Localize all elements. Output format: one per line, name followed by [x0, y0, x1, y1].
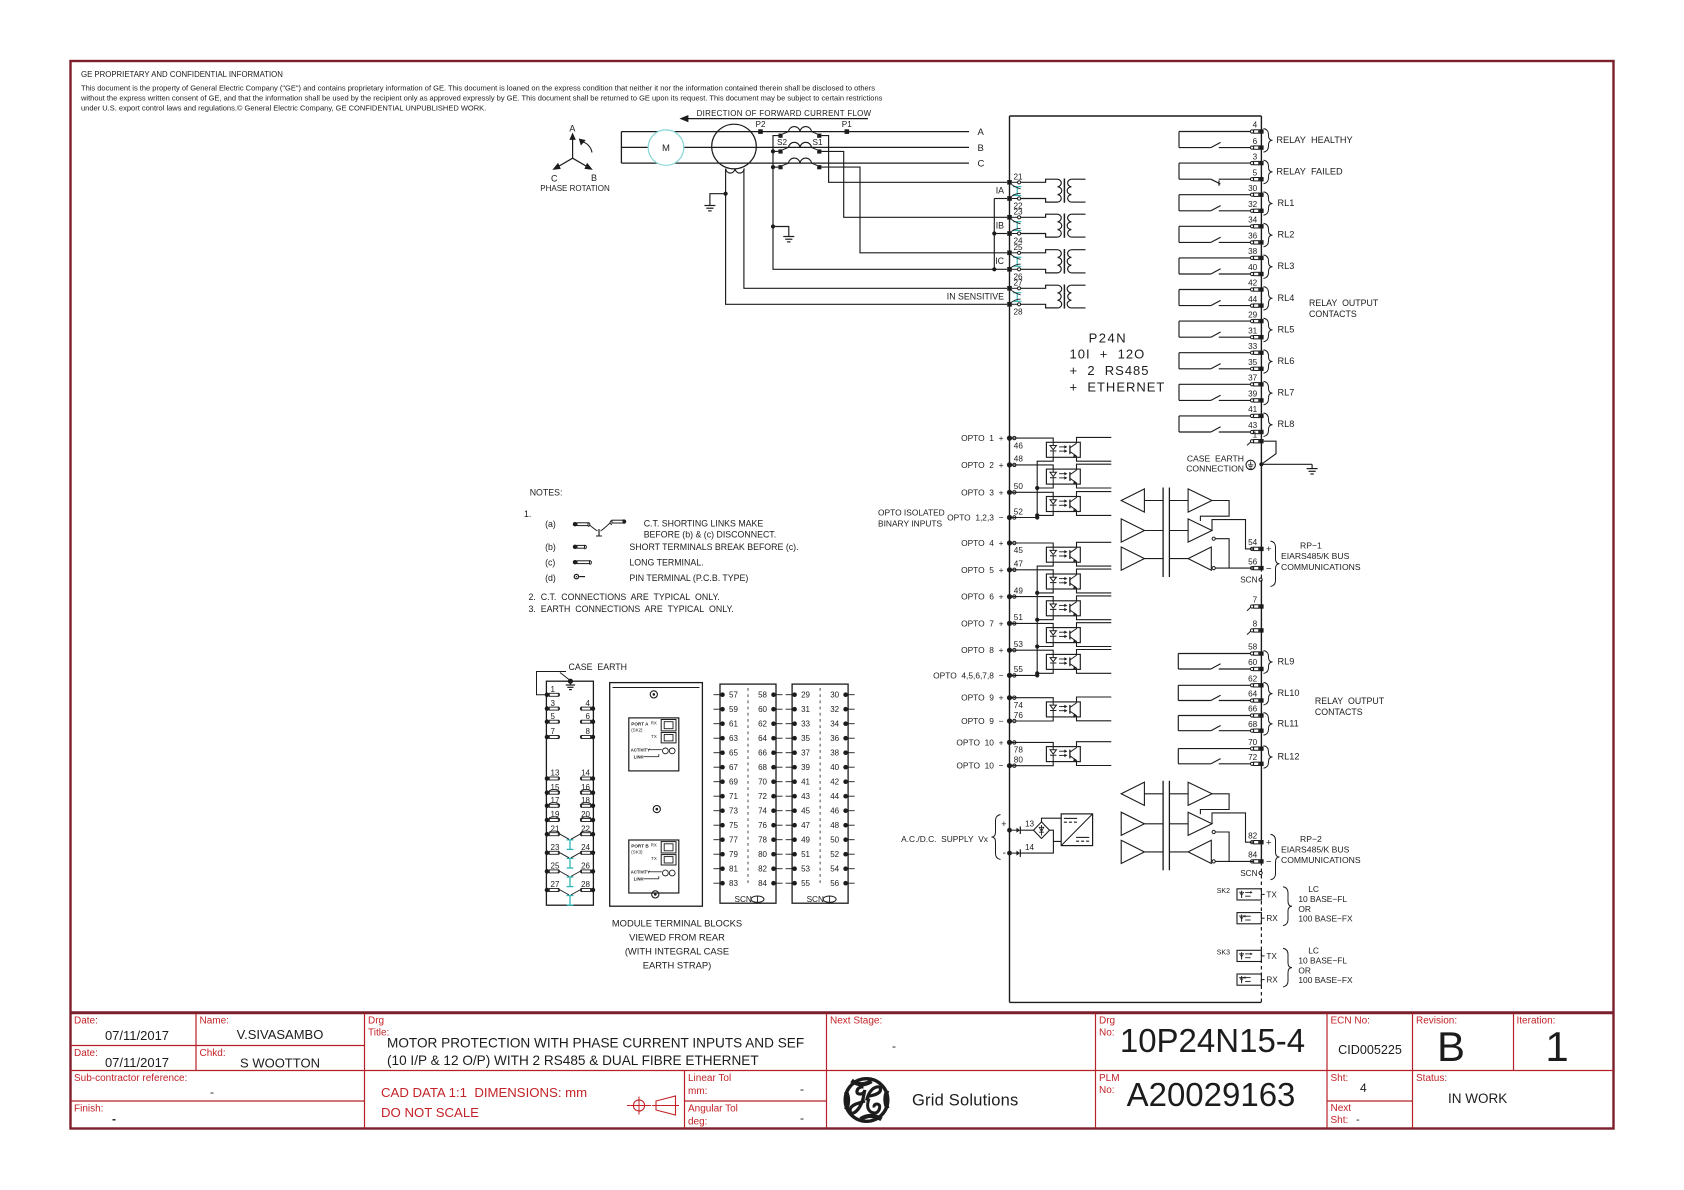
svg-text:RELAY OUTPUT: RELAY OUTPUT — [1309, 298, 1379, 308]
svg-text:IN WORK: IN WORK — [1448, 1091, 1507, 1106]
svg-text:7: 7 — [1253, 596, 1258, 605]
svg-text:70: 70 — [758, 778, 767, 787]
svg-text:41: 41 — [1248, 405, 1258, 414]
svg-text:35: 35 — [801, 734, 810, 743]
fibre port SK2 RX — [1237, 913, 1278, 924]
svg-text:43: 43 — [1248, 421, 1258, 430]
rear block terminal 71 — [714, 792, 739, 801]
rear block A SCN — [735, 895, 765, 904]
svg-text:CASE EARTH: CASE EARTH — [569, 662, 628, 672]
CT shorting link 21/22 — [1013, 186, 1021, 188]
svg-text:ACTIVITY: ACTIVITY — [631, 747, 650, 752]
relay contact RELAY&#160; FAILED terminals 3/5 — [1179, 152, 1343, 186]
wire opto 5 cathode to common — [1037, 589, 1053, 593]
svg-text:B: B — [1437, 1023, 1465, 1070]
svg-text:CONNECTION: CONNECTION — [1186, 464, 1244, 474]
svg-text:53: 53 — [801, 865, 810, 874]
rear block terminal 64 — [758, 734, 782, 743]
rear block B SCN — [807, 895, 837, 904]
wire opto 7 cathode to common — [1037, 643, 1053, 647]
svg-text:73: 73 — [729, 807, 738, 816]
svg-text:37: 37 — [1248, 374, 1258, 383]
rear block terminal 68 — [758, 763, 782, 772]
svg-text:46: 46 — [830, 807, 839, 816]
title block CAD note — [381, 1085, 587, 1120]
receiver input circle A — [1212, 830, 1215, 833]
rear block terminal 16 — [580, 783, 595, 795]
rear block terminal 24 — [580, 843, 595, 855]
wire receiver input A — [1215, 539, 1229, 568]
terminal 24 — [1007, 231, 1012, 236]
svg-text:59: 59 — [729, 705, 738, 714]
rear block terminal 76 — [758, 821, 782, 830]
svg-text:31: 31 — [801, 705, 810, 714]
svg-text:55: 55 — [1014, 665, 1024, 674]
rear block terminal 47 — [786, 821, 811, 830]
svg-text:13: 13 — [1025, 820, 1035, 829]
svg-text:A: A — [978, 127, 985, 138]
svg-text:RL4: RL4 — [1278, 293, 1295, 303]
svg-text:MODULE TERMINAL BLOCKS: MODULE TERMINAL BLOCKS — [612, 918, 742, 929]
svg-text:1: 1 — [1253, 430, 1258, 439]
svg-text:NOTES:: NOTES: — [530, 488, 563, 498]
svg-text:-: - — [112, 1112, 116, 1126]
svg-text:+: + — [1001, 819, 1006, 829]
terminal 46 opto 1 + — [1007, 436, 1012, 441]
rear block terminal 72 — [758, 792, 782, 801]
terminal 84 — [1250, 860, 1253, 863]
brace RP-2 — [1271, 834, 1280, 880]
svg-text:67: 67 — [729, 763, 738, 772]
terminal 8 — [1250, 629, 1253, 632]
svg-text:1.: 1. — [524, 509, 531, 519]
label P24N model block — [1070, 331, 1166, 395]
isolation buffer triangle (right col, row2, driver) — [1188, 812, 1212, 835]
CT shorting link 25/26 — [1013, 256, 1021, 258]
svg-text:RL5: RL5 — [1278, 324, 1295, 334]
svg-text:OPTO 10 −: OPTO 10 − — [956, 761, 1003, 771]
isolation buffer triangle (left col, row1, receiver) — [1121, 782, 1144, 805]
svg-text:07/11/2017: 07/11/2017 — [105, 1028, 169, 1043]
svg-text:(WITH INTEGRAL CASE: (WITH INTEGRAL CASE — [625, 946, 729, 957]
svg-text:PHASE ROTATION: PHASE ROTATION — [540, 184, 610, 193]
terminal 54 — [1250, 547, 1253, 550]
wire phase C CT S1 to terminal 25 — [821, 167, 1007, 253]
svg-text:-: - — [800, 1082, 804, 1096]
svg-text:42: 42 — [1248, 279, 1258, 288]
svg-text:07/11/2017: 07/11/2017 — [105, 1055, 169, 1070]
svg-text:Finish:: Finish: — [74, 1104, 103, 1115]
svg-text:OPTO 9 +: OPTO 9 + — [961, 693, 1004, 703]
relay input CT IB transformer — [1021, 214, 1086, 238]
wire phase A CT S1 to terminal 21 — [821, 136, 1007, 183]
svg-text:53: 53 — [1014, 640, 1024, 649]
svg-text:OR: OR — [1298, 965, 1311, 975]
rear block terminal 59 — [714, 705, 739, 714]
wire driver1 output — [1200, 794, 1229, 815]
svg-text:66: 66 — [1248, 705, 1258, 714]
svg-text:PORT A: PORT A — [631, 721, 649, 726]
svg-text:32: 32 — [830, 705, 839, 714]
relay contact RL3 terminals 38/40 — [1179, 247, 1294, 278]
svg-text:SCN: SCN — [735, 895, 752, 904]
svg-text:RL3: RL3 — [1278, 261, 1295, 271]
svg-text:23: 23 — [551, 843, 560, 852]
svg-text:+ 2 RS485: + 2 RS485 — [1070, 363, 1150, 378]
rear block terminal 25 — [545, 862, 560, 874]
svg-text:Chkd:: Chkd: — [200, 1048, 226, 1059]
svg-text:82: 82 — [758, 865, 767, 874]
svg-text:28: 28 — [581, 880, 590, 889]
wires across isolation core — [1144, 793, 1163, 795]
svg-text:27: 27 — [1014, 278, 1024, 287]
svg-text:24: 24 — [581, 843, 590, 852]
svg-text:32: 32 — [1248, 200, 1258, 209]
svg-text:28: 28 — [1014, 307, 1024, 316]
svg-text:without the express written co: without the express written consent of G… — [80, 94, 883, 103]
terminal 1 case earth — [1247, 430, 1264, 445]
svg-text:Drg: Drg — [368, 1016, 384, 1027]
svg-text:A: A — [569, 124, 575, 134]
rear block terminal 45 — [786, 807, 811, 816]
svg-text:72: 72 — [1248, 753, 1258, 762]
title block row 1 labels and values — [74, 1016, 323, 1071]
terminal 47 opto 5 + — [1007, 567, 1012, 572]
svg-text:1: 1 — [551, 685, 556, 694]
svg-text:30: 30 — [1248, 184, 1258, 193]
wire rectifier right to PSU — [1050, 830, 1062, 841]
rear block terminal 70 — [758, 778, 782, 787]
svg-text:4: 4 — [1360, 1081, 1367, 1095]
wire terminal 1 to case earth stud — [1261, 441, 1276, 464]
svg-text:10 BASE−FL: 10 BASE−FL — [1298, 956, 1347, 966]
relay contact RL4 terminals 42/44 — [1179, 279, 1294, 310]
svg-text:49: 49 — [801, 836, 810, 845]
svg-text:5: 5 — [551, 712, 556, 721]
svg-text:OPTO 3 +: OPTO 3 + — [961, 487, 1004, 497]
svg-text:68: 68 — [758, 763, 767, 772]
fibre port SK3 RX — [1237, 974, 1278, 985]
relay contact RL6 terminals 33/35 — [1179, 342, 1294, 373]
wire terminal 55 to opto common bus — [1012, 674, 1037, 676]
rear terminal block B outline — [792, 684, 848, 903]
svg-text:54: 54 — [830, 865, 839, 874]
svg-text:LC: LC — [1308, 884, 1319, 894]
svg-text:31: 31 — [1248, 326, 1258, 335]
svg-text:62: 62 — [758, 720, 767, 729]
title block status — [1416, 1073, 1507, 1106]
rear block terminal 43 — [786, 792, 811, 801]
wire terminal 52 to opto common bus — [1012, 517, 1037, 519]
module screw bottom — [652, 891, 659, 898]
svg-text:OPTO 1,2,3 −: OPTO 1,2,3 − — [947, 513, 1004, 523]
svg-text:40: 40 — [830, 763, 839, 772]
svg-text:58: 58 — [758, 691, 767, 700]
rear block terminal 73 — [714, 807, 739, 816]
svg-text:8: 8 — [586, 727, 591, 736]
terminal 50 opto 3 + — [1007, 490, 1012, 495]
svg-text:79: 79 — [729, 850, 738, 859]
svg-text:(SK3): (SK3) — [631, 850, 643, 855]
svg-text:OPTO 7 +: OPTO 7 + — [961, 618, 1004, 628]
svg-text:Drg: Drg — [1099, 1016, 1115, 1027]
svg-text:4: 4 — [586, 699, 591, 708]
receiver input circle B — [1212, 860, 1215, 863]
svg-text:Sub-contractor reference:: Sub-contractor reference: — [74, 1073, 187, 1084]
svg-text:OPTO 10 +: OPTO 10 + — [956, 737, 1003, 747]
rear block terminal 39 — [786, 763, 811, 772]
terminal 14 supply - — [1007, 843, 1034, 857]
svg-text:IN SENSITIVE: IN SENSITIVE — [947, 291, 1004, 301]
CT shorting link 27/28 — [1013, 292, 1021, 294]
terminal 80 opto 10 - — [1007, 763, 1012, 768]
svg-text:CONTACTS: CONTACTS — [1309, 309, 1357, 319]
terminal 53 opto 8 + — [1007, 648, 1012, 653]
line CT phase B — [778, 142, 821, 153]
optocoupler U3 — [1012, 492, 1111, 516]
svg-text:B: B — [978, 143, 984, 154]
svg-text:52: 52 — [830, 850, 839, 859]
svg-text:65: 65 — [729, 749, 738, 758]
rear block terminal 8 — [580, 727, 595, 739]
GE logo — [845, 1079, 888, 1122]
svg-text:OR: OR — [1298, 904, 1311, 914]
svg-text:TX: TX — [1266, 890, 1277, 899]
svg-text:OPTO 4 +: OPTO 4 + — [961, 538, 1004, 548]
rear block terminal 42 — [830, 778, 854, 787]
case earth stud on block — [566, 679, 575, 690]
title block next stage — [830, 1016, 896, 1054]
ground at CT secondary star point — [773, 227, 794, 242]
svg-text:52: 52 — [1014, 507, 1024, 516]
title block revision — [1416, 1016, 1465, 1071]
svg-text:3. EARTH CONNECTIONS ARE T: 3. EARTH CONNECTIONS ARE TYPICAL ONLY. — [529, 604, 734, 614]
wire opto 9 cathode to terminal 76 — [1012, 717, 1053, 721]
rear block terminal 3 — [545, 699, 560, 711]
wire opto 4 cathode to common — [1037, 562, 1053, 675]
svg-text:RL6: RL6 — [1278, 356, 1295, 366]
svg-text:74: 74 — [1014, 701, 1024, 710]
terminal 26 — [1007, 267, 1012, 272]
rear block terminal 7 — [545, 727, 560, 739]
svg-text:+ ETHERNET: + ETHERNET — [1070, 380, 1166, 395]
svg-text:RX: RX — [1266, 914, 1278, 923]
rear block terminal 78 — [758, 836, 782, 845]
svg-text:14: 14 — [581, 769, 590, 778]
relay contact RL2 terminals 34/36 — [1179, 216, 1294, 247]
svg-text:Next Stage:: Next Stage: — [830, 1016, 882, 1027]
rear block terminal 48 — [830, 821, 854, 830]
terminal P2 of phase A CT — [758, 129, 763, 134]
svg-text:RL2: RL2 — [1278, 230, 1295, 240]
ground at case earth — [1261, 464, 1317, 474]
svg-text:P1: P1 — [842, 120, 852, 129]
svg-text:-: - — [892, 1039, 896, 1053]
svg-text:A.C./D.C. SUPPLY Vx: A.C./D.C. SUPPLY Vx — [901, 834, 989, 844]
wire core balance CT secondary left lead to terminal 28 — [726, 169, 1007, 305]
svg-text:3: 3 — [551, 699, 556, 708]
isolation buffer triangle (right col, row1, driver) — [1188, 782, 1212, 805]
svg-text:+: + — [1266, 838, 1272, 849]
brace SK3 — [1283, 948, 1292, 987]
svg-text:RL12: RL12 — [1278, 751, 1300, 761]
svg-text:+: + — [1266, 544, 1272, 555]
svg-text:RL10: RL10 — [1278, 688, 1300, 698]
fibre port SK3 TX — [1217, 949, 1278, 961]
terminal 78 opto 10 + — [1007, 740, 1012, 745]
optocoupler U51 — [1012, 623, 1111, 647]
rear block terminal 31 — [786, 705, 811, 714]
svg-text:IA: IA — [996, 185, 1004, 195]
svg-text:LONG TERMINAL.: LONG TERMINAL. — [629, 557, 703, 567]
svg-text:(a): (a) — [545, 519, 556, 529]
svg-text:54: 54 — [1248, 538, 1258, 547]
svg-text:RL11: RL11 — [1278, 718, 1299, 728]
rear block terminal 60 — [758, 705, 782, 714]
wire motor star tie — [620, 132, 622, 164]
terminal 49 opto 6 + — [1007, 594, 1012, 599]
svg-text:27: 27 — [551, 880, 560, 889]
svg-text:SCN: SCN — [1240, 869, 1257, 878]
svg-text:A20029163: A20029163 — [1127, 1076, 1296, 1113]
wire opto 2 cathode to common — [1037, 484, 1053, 488]
svg-text:VIEWED FROM REAR: VIEWED FROM REAR — [629, 932, 725, 943]
module PORT A (SK2) — [629, 718, 679, 771]
svg-text:46: 46 — [1014, 441, 1024, 450]
optocoupler U1 — [1012, 437, 1111, 461]
svg-text:OPTO 5 +: OPTO 5 + — [961, 565, 1004, 575]
svg-text:RL1: RL1 — [1278, 198, 1295, 208]
svg-text:45: 45 — [801, 807, 810, 816]
svg-text:39: 39 — [801, 763, 810, 772]
svg-text:under U.S. export control laws: under U.S. export control laws and regul… — [81, 104, 486, 113]
svg-text:83: 83 — [729, 879, 738, 888]
receiver input circle A — [1212, 537, 1215, 540]
svg-text:OPTO 1 +: OPTO 1 + — [961, 433, 1004, 443]
rear centre module outline — [610, 683, 703, 907]
wire driver2 output to + terminal — [1212, 813, 1257, 842]
svg-text:47: 47 — [1014, 560, 1024, 569]
terminal 22 — [1007, 196, 1012, 201]
svg-text:62: 62 — [1248, 675, 1258, 684]
svg-text:(d): (d) — [545, 573, 556, 583]
svg-text:OPTO 9 −: OPTO 9 − — [961, 716, 1004, 726]
svg-text:M: M — [662, 143, 670, 154]
svg-text:Status:: Status: — [1416, 1073, 1447, 1084]
svg-text:51: 51 — [801, 850, 810, 859]
svg-text:C: C — [551, 174, 558, 184]
isolation buffer triangle (right col, row3, receiver) — [1188, 547, 1211, 570]
svg-text:76: 76 — [758, 821, 767, 830]
svg-text:30: 30 — [830, 691, 839, 700]
svg-text:68: 68 — [1248, 720, 1258, 729]
terminal 13 supply + — [1007, 820, 1034, 835]
svg-text:84: 84 — [1248, 851, 1258, 860]
svg-text:LINK: LINK — [634, 877, 644, 882]
terminal 51 opto 7 + — [1007, 621, 1012, 626]
svg-text:36: 36 — [1248, 232, 1258, 241]
rear block terminal 30 — [830, 691, 854, 700]
module screw middle — [653, 806, 660, 813]
relay P24N case outline — [1010, 116, 1262, 1002]
svg-text:RL7: RL7 — [1278, 388, 1295, 398]
svg-text:Name:: Name: — [200, 1016, 229, 1027]
note (c) symbol and text — [545, 557, 703, 567]
svg-text:71: 71 — [729, 792, 738, 801]
svg-text:BINARY INPUTS: BINARY INPUTS — [878, 519, 942, 529]
rear block terminal 49 — [786, 836, 811, 845]
wire opto 6 cathode to common — [1037, 616, 1053, 620]
svg-text:SK2: SK2 — [1217, 888, 1230, 895]
svg-text:50: 50 — [830, 836, 839, 845]
svg-text:48: 48 — [1014, 455, 1024, 464]
svg-text:COMMUNICATIONS: COMMUNICATIONS — [1281, 855, 1361, 865]
wire CT return bus terminals 22 and 24 — [994, 198, 1007, 200]
rear block terminal 32 — [830, 705, 854, 714]
svg-text:(b): (b) — [545, 542, 556, 552]
note (d) symbol and text — [545, 573, 748, 583]
svg-text:42: 42 — [830, 778, 839, 787]
svg-text:36: 36 — [830, 734, 839, 743]
rear block terminal 15 — [545, 783, 560, 795]
svg-text:100 BASE−FX: 100 BASE−FX — [1298, 975, 1353, 985]
rear block terminal 77 — [714, 836, 739, 845]
brace SK2 — [1283, 887, 1292, 926]
svg-text:41: 41 — [801, 778, 810, 787]
terminal 56 — [1250, 567, 1253, 570]
module screw top — [650, 691, 657, 698]
rear left terminal block outline — [546, 681, 593, 905]
svg-text:10P24N15-4: 10P24N15-4 — [1120, 1022, 1305, 1059]
terminal 45 opto 4 + — [1007, 540, 1012, 545]
optocoupler U2 — [1012, 464, 1111, 488]
title block ECN no — [1331, 1016, 1402, 1058]
isolation buffer triangle (left col, row2) — [1121, 519, 1144, 542]
terminal 48 opto 2 + — [1007, 462, 1012, 467]
relay contact RL12 terminals 70/72 — [1178, 738, 1299, 769]
rear block terminal 21 — [545, 824, 560, 836]
svg-text:40: 40 — [1248, 263, 1258, 272]
wire phase bus C — [621, 162, 969, 164]
terminal 21 — [1007, 180, 1012, 185]
svg-text:No:: No: — [1099, 1085, 1115, 1096]
receiver input circle B — [1212, 567, 1215, 570]
optocoupler U49 — [1012, 596, 1111, 620]
svg-text:10 BASE−FL: 10 BASE−FL — [1298, 894, 1347, 904]
svg-text:S2: S2 — [777, 138, 787, 147]
svg-text:-: - — [1356, 1114, 1360, 1126]
wire core balance CT secondary right lead to terminal 27 — [744, 169, 1007, 289]
leader case earth to stud — [560, 673, 569, 680]
wire opto 3 cathode to common — [1037, 512, 1053, 516]
svg-text:OPTO ISOLATED: OPTO ISOLATED — [878, 508, 945, 518]
svg-text:39: 39 — [1248, 390, 1258, 399]
svg-text:56: 56 — [1248, 557, 1258, 566]
svg-text:33: 33 — [1248, 342, 1258, 351]
svg-text:21: 21 — [1014, 172, 1024, 181]
svg-text:Sht:: Sht: — [1331, 1073, 1349, 1084]
svg-text:P24N: P24N — [1089, 331, 1128, 346]
rear block terminal 52 — [830, 850, 854, 859]
rear terminal block B centre line — [819, 688, 821, 885]
svg-text:No:: No: — [1099, 1028, 1115, 1039]
junction core CT earth tap — [724, 192, 728, 196]
rear block terminal 67 — [714, 763, 739, 772]
rear block terminal 14 — [580, 769, 595, 781]
rear block terminal 57 — [714, 691, 739, 700]
svg-text:47: 47 — [801, 821, 810, 830]
svg-text:29: 29 — [1248, 310, 1258, 319]
